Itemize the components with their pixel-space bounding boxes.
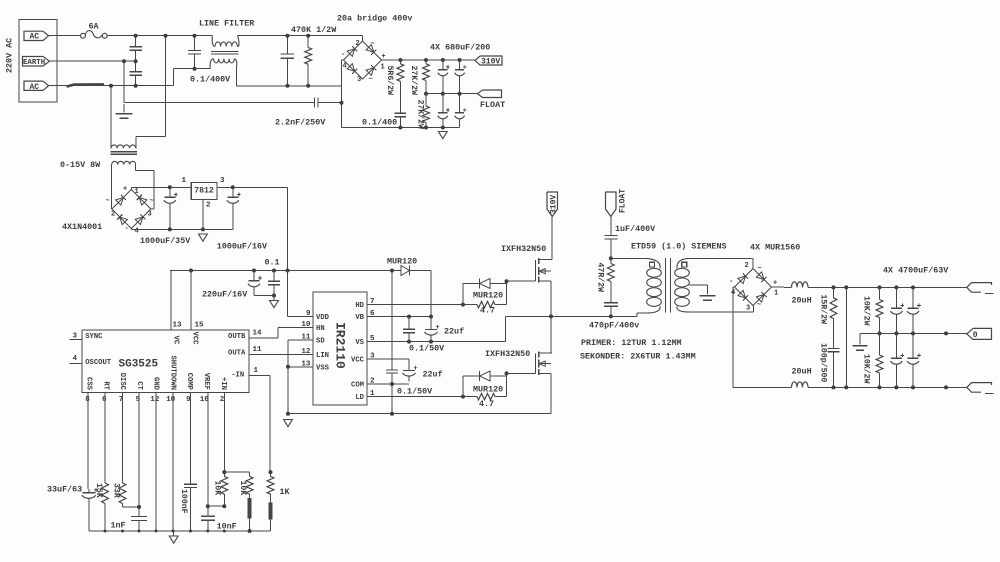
- svg-text:VSS: VSS: [316, 364, 330, 372]
- svg-text:11: 11: [253, 346, 263, 354]
- svg-text:1nF: 1nF: [111, 521, 126, 531]
- svg-text:SEKONDER: 2X6TUR 1.43MM: SEKONDER: 2X6TUR 1.43MM: [580, 352, 696, 362]
- svg-text:4X MUR1560: 4X MUR1560: [750, 243, 800, 253]
- svg-text:3: 3: [148, 211, 152, 219]
- svg-text:2: 2: [356, 40, 360, 48]
- svg-text:1000uF/16V: 1000uF/16V: [217, 242, 268, 252]
- svg-text:-: -: [729, 278, 733, 286]
- svg-text:PRIMER: 12TUR 1.12MM: PRIMER: 12TUR 1.12MM: [581, 338, 682, 348]
- svg-text:14: 14: [253, 330, 263, 338]
- svg-text:10: 10: [301, 321, 311, 329]
- svg-text:LD: LD: [355, 394, 364, 402]
- svg-text:VS: VS: [355, 339, 364, 347]
- svg-text:MUR120: MUR120: [387, 257, 417, 267]
- svg-text:IXFH32N50: IXFH32N50: [485, 349, 530, 359]
- svg-text:+IN: +IN: [219, 377, 227, 390]
- svg-text:3: 3: [220, 177, 225, 185]
- svg-text:3: 3: [73, 333, 78, 341]
- svg-text:+: +: [123, 186, 127, 194]
- svg-text:CT: CT: [135, 381, 143, 390]
- svg-text:10K: 10K: [213, 481, 222, 496]
- svg-text:13: 13: [173, 322, 183, 330]
- svg-text:1000uF/35V: 1000uF/35V: [140, 236, 191, 246]
- svg-text:12: 12: [150, 396, 160, 404]
- svg-text:33uF/63: 33uF/63: [47, 485, 82, 495]
- svg-text:MUR120: MUR120: [473, 291, 503, 301]
- svg-text:EARTH: EARTH: [23, 59, 45, 67]
- svg-text:12: 12: [301, 348, 311, 356]
- svg-text:GND: GND: [152, 377, 160, 391]
- svg-text:~: ~: [106, 198, 110, 206]
- svg-text:47R/2W: 47R/2W: [596, 263, 606, 293]
- svg-text:VREF: VREF: [202, 373, 210, 390]
- svg-text:CSS: CSS: [84, 377, 92, 391]
- svg-text:27K/2W: 27K/2W: [409, 66, 419, 96]
- svg-text:7: 7: [119, 396, 124, 404]
- svg-text:LIN: LIN: [316, 352, 329, 360]
- svg-text:~: ~: [758, 265, 762, 273]
- svg-text:100p/500: 100p/500: [819, 343, 829, 382]
- svg-text:10K/2W: 10K/2W: [862, 354, 872, 384]
- svg-text:LINE FILTER: LINE FILTER: [199, 19, 255, 29]
- svg-text:-IN: -IN: [231, 372, 244, 380]
- svg-text:1: 1: [774, 290, 778, 298]
- svg-text:4X 680uF/200: 4X 680uF/200: [430, 43, 490, 53]
- svg-text:2.2nF/250V: 2.2nF/250V: [275, 118, 326, 128]
- svg-text:SD: SD: [316, 338, 325, 346]
- svg-text:3: 3: [746, 305, 750, 313]
- svg-text:2: 2: [745, 262, 749, 270]
- svg-text:VB: VB: [355, 314, 364, 322]
- svg-text:IXFH32N50: IXFH32N50: [501, 244, 546, 254]
- svg-text:4X 4700uF/63V: 4X 4700uF/63V: [883, 266, 949, 276]
- svg-text:0.1/400V: 0.1/400V: [190, 75, 231, 85]
- svg-text:VCC: VCC: [351, 357, 365, 365]
- svg-text:~: ~: [150, 198, 154, 206]
- svg-text:1: 1: [254, 367, 259, 375]
- svg-text:7812: 7812: [194, 186, 214, 195]
- svg-text:15R/2W: 15R/2W: [819, 295, 829, 325]
- svg-text:470pF/400v: 470pF/400v: [589, 321, 639, 331]
- svg-text:COM: COM: [351, 382, 364, 390]
- svg-text:3: 3: [357, 76, 361, 84]
- svg-text:1: 1: [182, 177, 187, 185]
- svg-text:5: 5: [136, 396, 141, 404]
- svg-text:MUR120: MUR120: [473, 385, 503, 395]
- svg-text:4X1N4001: 4X1N4001: [62, 222, 102, 232]
- svg-text:AC: AC: [30, 33, 40, 42]
- svg-text:2: 2: [206, 202, 211, 210]
- svg-text:VC: VC: [171, 336, 179, 345]
- svg-text:VCC: VCC: [190, 332, 198, 346]
- svg-text:VDD: VDD: [316, 314, 330, 322]
- svg-text:2: 2: [111, 211, 115, 219]
- svg-text:310V: 310V: [550, 195, 559, 214]
- svg-text:~: ~: [757, 302, 761, 310]
- svg-text:FLOAT: FLOAT: [619, 189, 628, 213]
- svg-text:~: ~: [371, 41, 375, 49]
- svg-text:4.7: 4.7: [479, 399, 494, 409]
- svg-text:0.1/400: 0.1/400: [362, 118, 397, 128]
- svg-text:ETD59 (1.0) SIEMENS: ETD59 (1.0) SIEMENS: [631, 242, 727, 252]
- svg-text:SHUTDOWN: SHUTDOWN: [168, 355, 176, 390]
- svg-text:SG3525: SG3525: [119, 359, 159, 371]
- svg-text:0: 0: [973, 331, 978, 340]
- svg-text:1: 1: [381, 64, 385, 72]
- svg-text:220V AC: 220V AC: [5, 38, 15, 73]
- svg-text:20a bridge 400v: 20a bridge 400v: [337, 14, 412, 24]
- svg-text:0.1/50V: 0.1/50V: [409, 344, 445, 354]
- svg-text:6A: 6A: [89, 22, 100, 32]
- svg-text:4: 4: [343, 63, 347, 71]
- svg-text:10K/2W: 10K/2W: [862, 296, 872, 326]
- svg-text:20uH: 20uH: [792, 296, 812, 306]
- svg-text:IR2110: IR2110: [333, 322, 348, 369]
- svg-text:COMP: COMP: [185, 373, 193, 391]
- svg-text:5R6/2W: 5R6/2W: [385, 66, 395, 96]
- svg-text:DISC: DISC: [118, 373, 126, 391]
- svg-text:310V: 310V: [481, 58, 500, 67]
- svg-text:4.7: 4.7: [480, 306, 495, 316]
- svg-text:33R: 33R: [112, 483, 121, 498]
- svg-text:220uF/16V: 220uF/16V: [202, 290, 248, 300]
- svg-text:10nF: 10nF: [217, 522, 237, 532]
- svg-text:15K: 15K: [94, 483, 103, 498]
- svg-text:RT: RT: [101, 381, 109, 390]
- svg-text:HD: HD: [355, 302, 364, 310]
- svg-text:20uH: 20uH: [792, 367, 812, 377]
- svg-text:4: 4: [73, 355, 78, 363]
- svg-text:0.1/50V: 0.1/50V: [397, 387, 433, 397]
- svg-text:15: 15: [195, 322, 205, 330]
- svg-text:22uf: 22uf: [444, 327, 464, 337]
- svg-text:-: -: [125, 225, 129, 233]
- svg-text:27K/2W: 27K/2W: [416, 100, 426, 130]
- svg-text:OUTB: OUTB: [228, 333, 246, 341]
- svg-text:470K 1/2W: 470K 1/2W: [291, 25, 337, 35]
- svg-text:10K: 10K: [238, 481, 247, 496]
- svg-text:1: 1: [135, 188, 139, 196]
- svg-text:0-15V 8W: 0-15V 8W: [60, 160, 101, 170]
- svg-text:1uF/400V: 1uF/400V: [615, 224, 656, 234]
- svg-text:SYNC: SYNC: [85, 333, 103, 341]
- svg-text:AC: AC: [30, 83, 40, 92]
- svg-text:1K: 1K: [280, 487, 291, 497]
- svg-text:OUTA: OUTA: [228, 350, 246, 358]
- svg-text:4: 4: [135, 228, 139, 236]
- svg-text:0.1: 0.1: [265, 258, 280, 268]
- svg-text:~: ~: [369, 76, 373, 84]
- svg-text:HN: HN: [316, 325, 325, 333]
- svg-text:+: +: [773, 280, 777, 288]
- svg-text:22uf: 22uf: [423, 370, 443, 380]
- svg-text:FLOAT: FLOAT: [480, 100, 505, 110]
- svg-text:10: 10: [166, 396, 176, 404]
- svg-text:100nF: 100nF: [179, 489, 188, 514]
- svg-text:-: -: [341, 51, 345, 59]
- svg-text:OSCOUT: OSCOUT: [85, 359, 112, 367]
